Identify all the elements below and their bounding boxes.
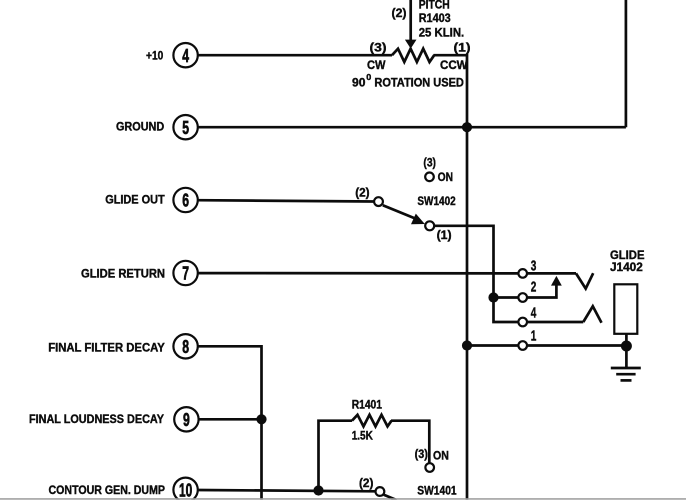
svg-text:3: 3 [531, 258, 537, 274]
wire jack sleeve line [467, 344, 626, 347]
svg-text:(3): (3) [415, 447, 428, 461]
wire node 9 to bus junction [199, 418, 262, 421]
wire node 6 to SW1402 pin 2 [197, 200, 374, 201]
svg-text:GLIDE OUT: GLIDE OUT [105, 193, 165, 207]
jack contact 2 circle [518, 293, 527, 302]
svg-text:(2): (2) [355, 185, 369, 199]
wire contact 2 to NC arrow [527, 285, 557, 298]
label 25 KLIN. [419, 25, 465, 39]
switch SW1401 arm [384, 495, 397, 500]
svg-text:CCW: CCW [440, 58, 468, 72]
switch SW1401 pin 2 contact [376, 487, 385, 496]
node 8 terminal circle [173, 334, 197, 358]
svg-text:(3): (3) [370, 40, 387, 54]
label GLIDE J1402 [610, 248, 645, 274]
label R1403 [419, 11, 451, 25]
svg-text:R1403: R1403 [419, 11, 451, 25]
svg-text:ON: ON [433, 449, 449, 463]
page edge strip [0, 498, 686, 500]
wire R1403 pin 1 to ground rail [434, 55, 468, 127]
net label GROUND [116, 120, 164, 134]
wire R1401 to SW1401 pin 3 [391, 421, 429, 463]
svg-text:R1401: R1401 [352, 397, 382, 411]
label (1) pin [454, 40, 471, 54]
wire ground rail node 5 to right edge [197, 126, 626, 129]
node 4 terminal circle [173, 43, 197, 67]
label 4 [531, 306, 537, 322]
label (3) ON of SW1402 [423, 155, 453, 184]
svg-text:0: 0 [366, 73, 372, 82]
junction node 9 [256, 414, 266, 424]
wire SW1402 pin 1 to jack contacts 2 and 4 [434, 226, 518, 322]
svg-text:6: 6 [182, 190, 189, 211]
svg-text:CONTOUR GEN. DUMP: CONTOUR GEN. DUMP [49, 483, 166, 497]
label SW1401 [417, 483, 456, 497]
svg-text:PITCH: PITCH [419, 0, 450, 12]
label (3) pin [370, 40, 387, 54]
junction branch to contact 2 [488, 292, 498, 302]
ground symbol [611, 368, 641, 380]
svg-text:FINAL FILTER DECAY: FINAL FILTER DECAY [48, 340, 165, 354]
label 2 [531, 280, 537, 296]
svg-text:90: 90 [352, 75, 366, 89]
svg-text:10: 10 [179, 479, 192, 500]
label (1) of SW1402 [437, 228, 452, 242]
wiper arrow of potentiometer R1403 [405, 40, 417, 49]
svg-text:ROTATION USED: ROTATION USED [374, 75, 464, 89]
potentiometer R1403 body [392, 49, 434, 62]
junction at jack sleeve [621, 341, 632, 352]
svg-text:4: 4 [531, 306, 537, 322]
svg-text:SW1402: SW1402 [417, 194, 455, 208]
label 1.5K [352, 428, 373, 442]
label CCW [440, 58, 468, 72]
svg-text:SW1401: SW1401 [417, 483, 456, 497]
svg-text:(3): (3) [423, 155, 436, 169]
wire node 8 down to bottom edge [197, 346, 262, 500]
wire ground bus down [466, 127, 469, 500]
junction sleeve to ground bus [462, 340, 472, 350]
jack J1402 body [614, 284, 637, 334]
switch SW1402 pin 2 contact [374, 197, 383, 206]
wire contact 4 to ring spring [527, 321, 584, 324]
net label FINAL FILTER DECAY [48, 340, 165, 354]
node 9 terminal circle [174, 407, 198, 431]
svg-text:(1): (1) [454, 40, 471, 54]
svg-text:7: 7 [182, 263, 189, 284]
svg-text:25 KLIN.: 25 KLIN. [419, 25, 465, 39]
svg-text:J1402: J1402 [610, 260, 643, 274]
node 5 terminal circle [173, 115, 197, 139]
jack contact 4 circle [518, 318, 527, 327]
svg-text:5: 5 [182, 117, 189, 138]
wire branch to contact 2 [494, 296, 519, 299]
label R1401 [352, 397, 382, 411]
resistor R1401 body [352, 415, 392, 427]
wire ground rail up right edge [625, 0, 628, 127]
svg-text:9: 9 [183, 409, 190, 430]
svg-text:FINAL LOUDNESS DECAY: FINAL LOUDNESS DECAY [29, 412, 165, 426]
resistor R1401 left leg [319, 421, 353, 491]
svg-text:ON: ON [438, 170, 453, 184]
svg-text:GLIDE RETURN: GLIDE RETURN [81, 267, 165, 281]
jack ring spring contact [583, 306, 601, 323]
label 3 [531, 258, 537, 274]
switch SW1402 pin 1 contact [425, 221, 434, 230]
node 10 terminal circle [173, 478, 197, 500]
wire: R1403 wiper feed from top edge [409, 0, 412, 42]
net label CONTOUR GEN. DUMP [49, 483, 166, 497]
jack tip spring contact [576, 273, 593, 288]
node 6 terminal circle [173, 188, 197, 212]
junction R1401 leg to node 10 wire [313, 485, 323, 495]
svg-text:4: 4 [182, 45, 189, 66]
wire node 7 to jack contact 3 [197, 272, 519, 275]
svg-text:GROUND: GROUND [116, 120, 164, 134]
label PITCH [419, 0, 450, 12]
wire node 4 to R1403 pin 3 [197, 54, 392, 57]
jack contact 3 circle [518, 269, 527, 278]
arrow onto tip contact [551, 276, 562, 286]
label 1 [531, 329, 537, 345]
switch SW1401 ON position contact [425, 463, 434, 472]
svg-text:(1): (1) [437, 228, 452, 242]
label SW1402 [417, 194, 455, 208]
node 7 terminal circle [173, 261, 197, 285]
svg-text:1.5K: 1.5K [352, 428, 373, 442]
junction ground rail and bus [462, 122, 472, 132]
svg-text:2: 2 [531, 280, 537, 296]
svg-text:8: 8 [182, 336, 189, 357]
net label +10 [146, 48, 163, 62]
net label GLIDE RETURN [81, 267, 165, 281]
switch SW1402 ON position contact [425, 173, 434, 182]
note 90 ROTATION USED [352, 73, 464, 89]
net label GLIDE OUT [105, 193, 165, 207]
svg-text:(2): (2) [392, 6, 407, 20]
label (3) ON of SW1401 [415, 447, 449, 463]
svg-text:1: 1 [531, 329, 537, 345]
label (2) of SW1401 [359, 476, 373, 490]
wire node 10 to SW1401 pin 2 [197, 490, 376, 491]
net label FINAL LOUDNESS DECAY [29, 412, 165, 426]
svg-text:CW: CW [367, 58, 386, 72]
jack contact 1 circle [518, 341, 527, 350]
label (2) of SW1402 [355, 185, 369, 199]
switch SW1402 arm [383, 205, 425, 224]
label CW [367, 58, 386, 72]
label (2) wiper pin [392, 6, 407, 20]
wire jack body to ground [625, 334, 628, 367]
svg-text:(2): (2) [359, 476, 373, 490]
svg-text:+10: +10 [146, 48, 163, 62]
wire contact 3 to tip spring [527, 272, 577, 275]
